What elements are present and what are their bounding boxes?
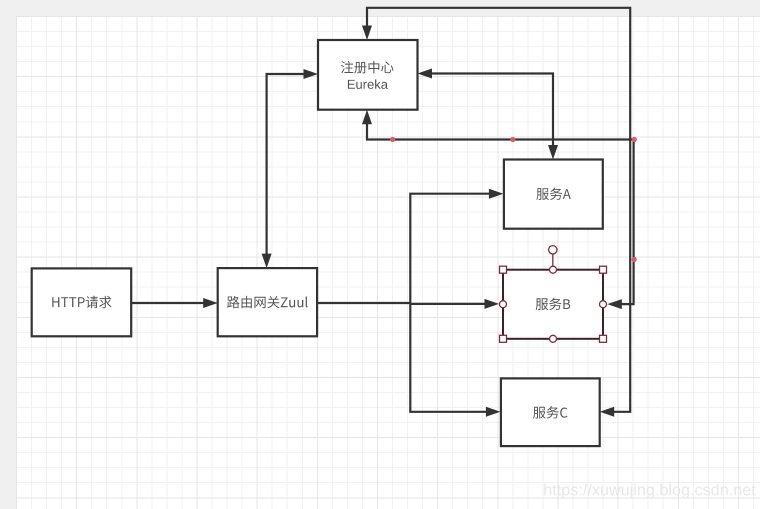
waypoint dot at wire crossing x634 y139 [632,137,637,142]
selection rotation handle of 服务B [549,246,557,267]
box 路由网关Zuul [218,268,317,336]
wire 路由网关Zuul to 注册中心Eureka (double arrow) [262,69,318,268]
wire 注册中心Eureka to 服务C (double arrow, top loop) [362,8,630,417]
wire branch node to 服务C [410,303,500,417]
wire branch node to 服务A [410,189,503,304]
wire branch node to 服务B [410,299,499,309]
waypoint dot on Eureka-服务B wire at y259 [632,257,637,262]
selection corner handles of 服务B [500,266,607,342]
box 注册中心 Eureka [318,40,418,110]
box 服务B (selected) [503,270,603,339]
wire 路由网关Zuul to branch node [317,302,410,304]
watermark text (blog url) [544,484,755,499]
wire 注册中心Eureka to 服务B (double arrow, mid loop) [362,110,634,309]
box HTTP请求 [32,268,132,336]
wire 注册中心Eureka to 服务A (double arrow) [418,69,559,160]
selection edge-midpoint handles of 服务B [500,266,607,342]
waypoint dot on Eureka-服务C wire at x392 [390,137,395,142]
waypoint dot on Eureka-服务C wire at x512 [510,137,515,142]
wire HTTP请求 to 路由网关Zuul [131,298,218,308]
box 服务C [501,378,600,446]
box 服务A [504,160,603,229]
